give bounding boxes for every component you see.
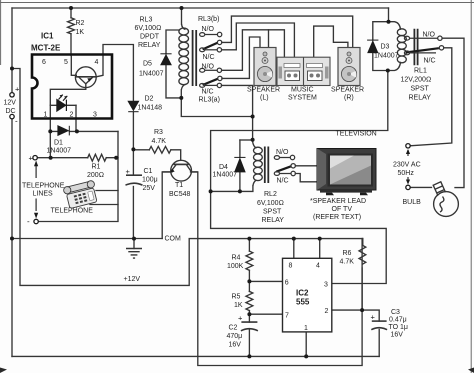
svg-text:T1: T1 <box>175 182 183 189</box>
wire C1 lower lead <box>132 187 134 239</box>
wire pin3 to relays <box>211 191 387 283</box>
svg-text:N/O: N/O <box>202 63 215 70</box>
svg-text:RELAY: RELAY <box>409 95 432 102</box>
svg-text:RL1: RL1 <box>414 68 427 75</box>
relay RL2 N/C contact <box>274 171 295 175</box>
wire +12V branch to bottom rail <box>12 69 363 286</box>
svg-text:(L): (L) <box>260 95 269 102</box>
wire RL3a NO out <box>222 30 285 71</box>
diode D4 <box>235 159 245 172</box>
mains arrows <box>406 149 410 185</box>
svg-text:+12V: +12V <box>124 276 141 283</box>
svg-text:12V: 12V <box>4 100 17 107</box>
svg-text:TELEPHONE: TELEPHONE <box>22 183 65 190</box>
svg-text:1K: 1K <box>234 302 243 309</box>
svg-text:N/C: N/C <box>277 177 289 184</box>
wire T1 collector to pin2 net <box>191 172 363 366</box>
relay RL2 core <box>265 147 269 184</box>
svg-text:D1: D1 <box>54 140 63 147</box>
svg-text:D4: D4 <box>219 164 228 171</box>
svg-text:6: 6 <box>42 59 46 66</box>
svg-text:6V,100Ω: 6V,100Ω <box>135 25 162 32</box>
diode D3 <box>368 41 378 52</box>
svg-text:MCT-2E: MCT-2E <box>31 44 61 53</box>
wire speaker L second terminal <box>268 30 270 48</box>
svg-text:TELEVISION: TELEVISION <box>336 131 377 138</box>
capacitor C2 <box>241 321 257 323</box>
svg-text:C3: C3 <box>391 309 400 316</box>
svg-text:COM: COM <box>165 236 182 243</box>
wire pin4 to D2 <box>103 45 133 102</box>
relay RL1 coil <box>397 29 406 63</box>
svg-text:50Hz: 50Hz <box>398 170 415 177</box>
wire RL1 arm to mains <box>410 48 452 146</box>
svg-text:1: 1 <box>304 325 308 332</box>
optocoupler phototransistor <box>71 56 103 90</box>
svg-text:200Ω: 200Ω <box>87 172 104 179</box>
svg-text:DC: DC <box>6 108 16 115</box>
svg-text:R1: R1 <box>92 164 101 171</box>
diode D2 <box>128 101 138 110</box>
wire RL2 top node <box>240 139 253 141</box>
svg-text:100μ: 100μ <box>142 177 158 184</box>
label 555 pins <box>285 262 329 332</box>
resistor R6 <box>359 245 366 264</box>
svg-text:2: 2 <box>70 112 74 119</box>
optocoupler LED light arrows <box>59 95 68 101</box>
svg-text:SPST: SPST <box>263 209 282 216</box>
svg-text:N/C: N/C <box>424 58 436 65</box>
svg-text:(REFER TEXT): (REFER TEXT) <box>313 214 361 221</box>
wire 555 pin2 <box>332 310 379 321</box>
svg-text:+: + <box>29 154 34 163</box>
svg-text:555: 555 <box>296 298 310 307</box>
wire COM line <box>12 238 162 240</box>
svg-text:R6: R6 <box>343 250 352 257</box>
svg-text:5: 5 <box>64 59 68 66</box>
svg-text:2: 2 <box>325 308 329 315</box>
svg-text:R4: R4 <box>232 255 241 262</box>
svg-text:1N4148: 1N4148 <box>138 105 163 112</box>
svg-text:+: + <box>126 167 131 176</box>
bulb <box>433 182 458 217</box>
optocoupler LED <box>57 100 67 111</box>
relay RL2 N/O contact <box>274 155 294 159</box>
wire RL1 coil leads <box>388 22 401 71</box>
wire top +12V rail <box>12 7 389 9</box>
svg-text:IC2: IC2 <box>296 289 309 298</box>
svg-text:N/O: N/O <box>276 149 289 156</box>
svg-text:RELAY: RELAY <box>262 217 285 224</box>
relay RL3(a) arm <box>203 79 218 85</box>
telephone lines arrows <box>34 161 38 219</box>
wire D2 to R3 node <box>132 112 134 175</box>
svg-text:1N4007: 1N4007 <box>47 148 72 155</box>
terminal telephone plus <box>33 156 37 160</box>
music system unit <box>277 57 330 85</box>
capacitor C1 <box>126 174 142 176</box>
svg-text:D3: D3 <box>381 44 390 51</box>
wire D1 left leg <box>50 89 86 157</box>
wire LED cathode leg <box>75 105 77 131</box>
terminal mains bottom <box>406 185 410 189</box>
speaker L cabinet <box>254 48 276 86</box>
wire left supply rail lower <box>11 119 13 357</box>
svg-text:-: - <box>15 117 18 126</box>
relay RL3(a) arm tip <box>218 76 222 80</box>
relay RL3 coil <box>179 24 189 90</box>
terminal 12V minus <box>10 114 14 118</box>
svg-text:1N4007: 1N4007 <box>374 53 399 60</box>
relay RL3(b) arm tip <box>217 40 221 44</box>
label opto pin numbers <box>42 59 99 119</box>
svg-text:SPEAKER: SPEAKER <box>331 87 364 94</box>
svg-text:IC1: IC1 <box>41 32 54 41</box>
relay RL3(b) N/O contact <box>200 32 222 36</box>
wire LED leads <box>50 104 76 106</box>
svg-text:12V,200Ω: 12V,200Ω <box>401 77 432 84</box>
resistor R5 <box>246 291 253 310</box>
transistor T1 emitter arrow <box>170 169 174 173</box>
svg-text:6V,100Ω: 6V,100Ω <box>257 200 284 207</box>
svg-text:R3: R3 <box>154 129 163 136</box>
svg-text:4: 4 <box>316 262 320 269</box>
svg-text:N/O: N/O <box>202 26 215 33</box>
page corner marks <box>0 368 474 373</box>
resistor R1 <box>88 154 107 161</box>
svg-text:4.7K: 4.7K <box>152 138 167 145</box>
wire music right to speaker R <box>314 26 348 57</box>
optocoupler emitter arrow <box>87 78 92 82</box>
diode D5 <box>161 55 171 65</box>
svg-text:N/C: N/C <box>203 54 215 61</box>
terminal 12V plus <box>10 93 14 97</box>
wire RL3b arm out <box>222 16 353 47</box>
transistor T1 <box>162 160 198 181</box>
svg-text:*SPEAKER LEAD: *SPEAKER LEAD <box>310 198 366 205</box>
svg-text:RL3(a): RL3(a) <box>199 97 220 104</box>
relay RL1 arm tip <box>439 46 443 50</box>
wire 555 pin8 <box>293 239 295 259</box>
wire RL2 NC to TV base <box>295 174 317 182</box>
resistor R2 <box>68 18 75 34</box>
svg-text:(R): (R) <box>344 95 354 102</box>
svg-text:SPEAKER: SPEAKER <box>247 87 280 94</box>
telephone icon <box>63 180 99 209</box>
ground symbol <box>126 249 142 259</box>
wire R5 to C2 <box>248 311 250 323</box>
svg-text:TELEPHONE: TELEPHONE <box>51 208 94 215</box>
svg-text:+: + <box>238 314 243 323</box>
wire C3 lower lead <box>378 330 380 357</box>
svg-text:6: 6 <box>285 280 289 287</box>
svg-text:4.7K: 4.7K <box>340 259 355 266</box>
wire R4 leads <box>248 239 250 292</box>
svg-text:OF TV: OF TV <box>332 206 353 213</box>
svg-text:DPDT: DPDT <box>140 34 160 41</box>
wire 555 pin1 <box>305 332 307 357</box>
wire 555 pin6 <box>249 280 282 282</box>
svg-text:25V: 25V <box>143 185 156 192</box>
wire telephone plus row <box>37 157 118 159</box>
wire bottom ground rail <box>12 355 379 357</box>
wire T1 emitter drop <box>162 172 172 239</box>
svg-text:3: 3 <box>324 282 328 289</box>
wire ground stem <box>133 239 135 249</box>
wire R6 leads <box>361 239 364 311</box>
wire RL2 bottom row <box>211 186 253 191</box>
svg-text:TO 1μ: TO 1μ <box>389 324 408 331</box>
svg-text:SYSTEM: SYSTEM <box>288 95 317 102</box>
speaker R cabinet <box>338 48 360 86</box>
wire D3 loop <box>373 22 388 71</box>
wire D5 parallel top <box>166 30 179 54</box>
svg-text:-: - <box>27 217 30 226</box>
wire RL3b NC out <box>222 23 295 57</box>
wire RL2 bottom to RL1 coil line <box>211 71 388 192</box>
svg-text:RELAY: RELAY <box>138 42 161 49</box>
wire RL2 arm to TV <box>295 165 317 167</box>
svg-text:BULB: BULB <box>403 199 422 206</box>
svg-text:SPST: SPST <box>411 86 430 93</box>
wire 555 pin4 <box>319 239 321 259</box>
relay RL2 arm tip <box>291 164 295 168</box>
wire RL3a NC drop to RL2 <box>221 85 252 139</box>
svg-text:C1: C1 <box>144 168 153 175</box>
wire RL3a arm out <box>222 37 260 78</box>
diode D1 <box>58 126 68 136</box>
svg-text:RL3: RL3 <box>140 17 153 24</box>
svg-text:1N4007: 1N4007 <box>213 172 238 179</box>
wire RL3 coil feed <box>181 8 183 24</box>
resistor R4 <box>246 251 253 270</box>
relay RL1 core <box>414 29 417 66</box>
relay RL3(a) N/O contact <box>200 68 222 72</box>
wire R3 leads <box>133 150 180 160</box>
svg-text:+: + <box>371 313 376 322</box>
svg-text:7: 7 <box>285 313 289 320</box>
relay RL1 N/O contact <box>404 36 442 40</box>
relay RL1 N/C contact <box>404 51 436 55</box>
resistor R3 <box>149 146 171 153</box>
svg-text:D2: D2 <box>145 96 154 103</box>
relay RL3 core <box>193 30 197 86</box>
svg-text:MUSIC: MUSIC <box>291 87 314 94</box>
svg-text:R5: R5 <box>232 294 241 301</box>
svg-text:1N4007: 1N4007 <box>139 71 164 78</box>
svg-text:1K: 1K <box>76 29 85 36</box>
svg-text:8: 8 <box>289 262 293 269</box>
svg-text:BC548: BC548 <box>169 191 191 198</box>
svg-text:16V: 16V <box>229 342 242 349</box>
relay RL1 arm <box>406 48 439 52</box>
svg-text:N/C: N/C <box>202 88 214 95</box>
wire left supply rail upper <box>11 8 13 93</box>
svg-text:LINES: LINES <box>33 191 54 198</box>
wire top rail drop to RL1 <box>388 8 390 22</box>
svg-text:+: + <box>15 85 20 94</box>
svg-text:R2: R2 <box>76 20 85 27</box>
relay RL2 arm <box>276 166 291 171</box>
wire D1 row <box>50 130 118 132</box>
svg-text:4: 4 <box>95 59 99 66</box>
svg-text:RL3(b): RL3(b) <box>198 16 219 23</box>
relay RL3(a) N/C contact <box>200 83 222 87</box>
wire telephone minus loop <box>38 131 118 221</box>
optocoupler IC1 MCT-2E box <box>32 55 112 119</box>
wire D5 parallel bottom <box>166 65 181 98</box>
terminal telephone minus <box>34 219 38 223</box>
wire mains to bulb <box>410 186 431 188</box>
svg-text:16V: 16V <box>391 332 404 339</box>
svg-text:D5: D5 <box>143 61 152 68</box>
terminal mains top <box>406 144 410 148</box>
wire C2 to ground rail <box>248 330 250 357</box>
wire telephone cords <box>90 191 118 205</box>
svg-text:N/O: N/O <box>423 32 436 39</box>
wire RL1 NO to bulb <box>442 38 464 187</box>
television set <box>317 149 376 196</box>
svg-text:230V AC: 230V AC <box>393 162 421 169</box>
wire D4 legs <box>239 140 241 191</box>
svg-text:C2: C2 <box>229 325 238 332</box>
svg-text:100K: 100K <box>227 263 244 270</box>
relay RL3(b) arm <box>203 43 218 50</box>
svg-text:RL2: RL2 <box>264 191 277 198</box>
svg-text:3: 3 <box>93 112 97 119</box>
wire R2/pin5 vertical <box>70 8 72 56</box>
capacitor C3 <box>372 320 387 322</box>
svg-text:1: 1 <box>44 112 48 119</box>
relay RL2 coil <box>253 142 263 187</box>
svg-text:0.47μ: 0.47μ <box>389 317 407 324</box>
IC2 555 box <box>283 258 332 332</box>
wire 555 pin7 <box>249 313 282 315</box>
wire RL3 coil bottom to RL2 net <box>181 90 252 117</box>
relay RL3(b) N/C contact <box>200 48 222 52</box>
svg-text:470μ: 470μ <box>227 333 243 340</box>
